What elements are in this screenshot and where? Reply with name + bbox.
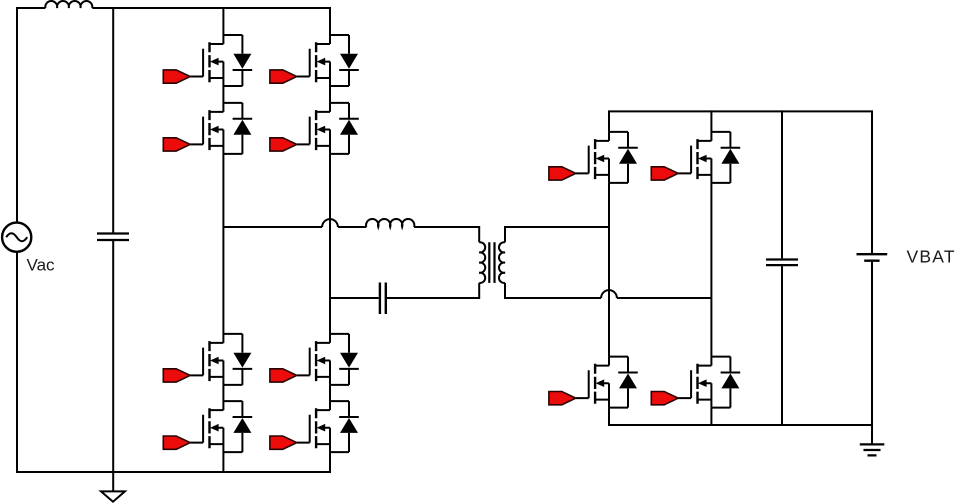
AC source sine wave [6,233,27,241]
wire L2 to transformer primary top [414,227,479,242]
transformer T1 secondary winding [499,242,505,283]
wire secondary leg1 mid [608,183,610,357]
capacitor C3 plates [766,260,798,266]
gate arrow Q4 [163,436,190,449]
transistor Q6 [297,103,359,154]
gate arrow Q5 [270,70,297,83]
wire right leg between Q7-Q8 [329,385,331,401]
transistor Q3 [190,334,252,385]
wire left leg between Q3-Q4 [222,385,224,401]
wire C2 to transformer primary bottom [387,283,479,298]
svg-text:VBAT: VBAT [907,247,956,267]
wire left leg between Q1-Q2 [222,86,224,103]
transistor Q11 [576,357,638,408]
wire transformer secondary bottom [505,283,601,298]
ground (chassis) stem [112,472,114,491]
transistor Q12 [678,357,740,408]
wire secondary leg2 bottom T [710,408,712,426]
wire secondary top bus [609,111,872,253]
inductor L1 (AC boost inductor) [45,1,92,8]
transistor Q7 [297,334,359,385]
gate arrow Q7 [270,369,297,382]
wire right leg between Q5-Q6 [329,86,331,103]
capacitor C3 bottom lead [781,266,783,426]
wire hop to leg2 midpoint [617,297,712,299]
gate arrow Q6 [270,138,297,151]
wire transformer secondary top to leg1 [505,227,609,242]
svg-text:Vac: Vac [27,256,56,275]
wire hop to inductor L2 [338,226,366,228]
gate arrow Q11 [549,392,576,405]
wire top-left rail [17,8,45,223]
capacitor C1 plates [97,234,129,241]
gate arrow Q10 [651,167,678,180]
transistor Q10 [678,132,740,183]
wire node A: left leg midpoint to resonant tank [223,226,322,228]
wire hop over right leg [322,219,338,227]
inductor L2 (resonant) [366,219,414,227]
wire secondary leg2 mid [710,183,712,357]
gate arrow Q1 [163,70,190,83]
transistor Q2 [190,103,252,154]
wire left leg mid [222,154,224,334]
capacitor C1 top lead [112,8,114,233]
wire top bus to right leg [92,8,330,35]
gate arrow Q8 [270,436,297,449]
transistor Q1 [190,35,252,86]
transistor Q5 [297,35,359,86]
capacitor C2 (resonant) plates [380,283,386,315]
wire left leg top T [222,7,224,35]
transformer T1 core [489,242,494,283]
AC source Vac circle [2,223,31,252]
wire secondary bottom bus [609,408,872,445]
ground (chassis) triangle [101,491,125,501]
wire left rail lower [17,252,330,472]
transistor Q9 [576,132,638,183]
wire node B: right leg midpoint to capacitor C2 [330,297,379,299]
gate arrow Q2 [163,138,190,151]
wire hop over secondary leg1 [601,290,617,298]
wire right leg mid [329,154,331,334]
transformer T1 primary winding [479,242,485,283]
ground bars right [860,444,885,455]
battery VBAT bottom lead [871,262,873,425]
battery VBAT plates [857,254,888,261]
transistor Q8 [297,401,359,452]
wire secondary leg2 top T [710,110,712,131]
transistor Q4 [190,401,252,452]
wire left leg bottom [222,452,224,473]
capacitor C3 top lead [781,110,783,258]
gate arrow Q12 [651,392,678,405]
capacitor C1 bottom lead [112,241,114,472]
gate arrow Q3 [163,369,190,382]
gate arrow Q9 [549,167,576,180]
